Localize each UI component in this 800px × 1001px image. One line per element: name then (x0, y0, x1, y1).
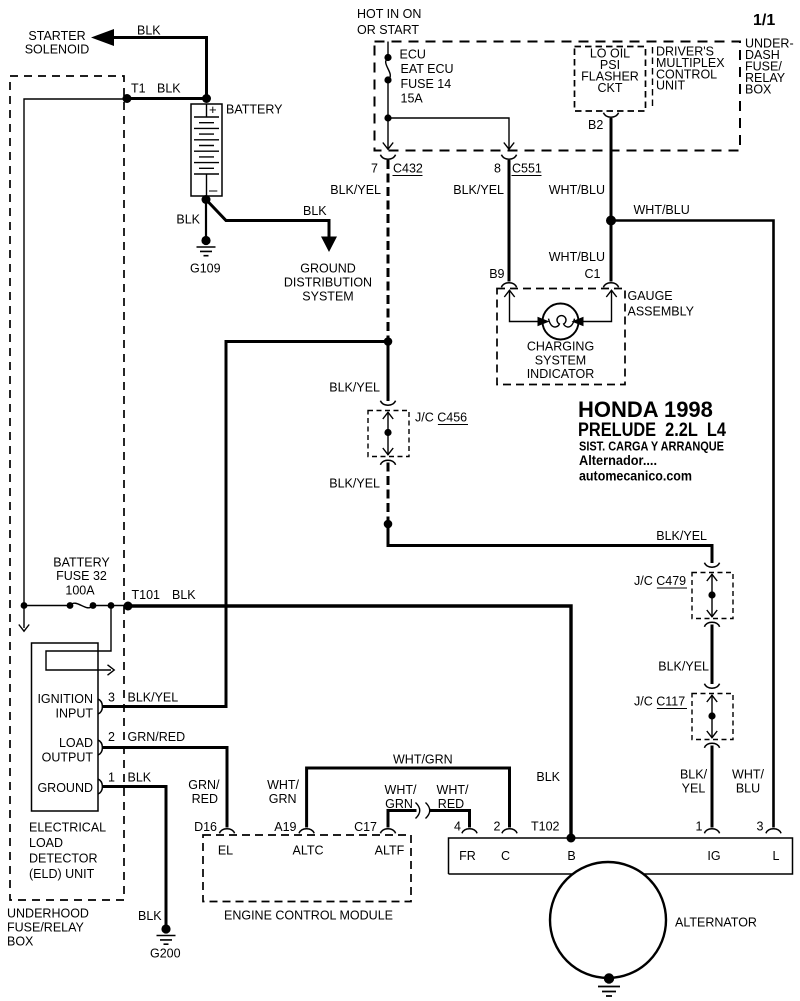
svg-text:BLK: BLK (536, 770, 560, 784)
svg-text:FUSE/RELAY: FUSE/RELAY (7, 921, 85, 935)
wire BLK pin 1 to G200 (103, 787, 166, 927)
wire fuse 32 to T101 (93, 605, 128, 607)
label BLK/ YEL at IG wire (680, 767, 708, 795)
wire hot feed into fuse 14 (387, 42, 389, 58)
dashed separator line right of lo oil box (652, 47, 654, 110)
svg-text:L: L (773, 849, 780, 863)
junction connector J/C C117 (692, 684, 733, 748)
svg-text:GRN/: GRN/ (188, 778, 220, 792)
svg-text:FR: FR (459, 849, 476, 863)
fuse BATTERY FUSE 32 100A (67, 602, 97, 609)
label GROUND DISTRIBUTION SYSTEM (284, 262, 372, 304)
label WHT/ RED right of break (437, 783, 469, 811)
svg-text:WHT/: WHT/ (732, 767, 764, 781)
svg-text:DETECTOR: DETECTOR (29, 852, 98, 866)
svg-text:J/C C117: J/C C117 (634, 695, 685, 709)
label GAUGE ASSEMBLY (628, 289, 695, 319)
wire BLK/YEL junction right and down to J/C C479 (388, 524, 712, 563)
wire BLK/YEL from C551 down to B9 (508, 160, 511, 282)
connector cap C1 at gauge assembly (603, 283, 618, 288)
svg-text:ELECTRICAL: ELECTRICAL (29, 821, 106, 835)
wire WHT/BLU junction right and down to alternator L (611, 221, 774, 828)
svg-text:WHT/: WHT/ (437, 783, 469, 797)
label T101 BLK (132, 588, 197, 602)
svg-text:CHARGING: CHARGING (527, 340, 594, 354)
svg-text:1: 1 (696, 820, 703, 834)
junction connector J/C C456 (368, 401, 409, 465)
svg-text:T102: T102 (531, 820, 560, 834)
wire BLK to starter solenoid with arrowhead (91, 29, 207, 97)
svg-text:(ELD) UNIT: (ELD) UNIT (29, 867, 95, 881)
svg-text:CKT: CKT (598, 81, 623, 95)
svg-text:STARTER: STARTER (28, 29, 85, 43)
svg-text:SYSTEM: SYSTEM (535, 354, 586, 368)
svg-text:8: 8 (494, 162, 501, 176)
wire BLK/YEL dashed from C432 down to junction (387, 160, 390, 342)
alternator terminal box (449, 838, 793, 874)
gauge assembly dashed box (497, 289, 625, 385)
svg-text:EL: EL (218, 844, 233, 858)
wire BLK/YEL between J/C C479 and J/C C117 (711, 625, 714, 685)
label STARTER SOLENOID (25, 29, 90, 57)
svg-text:1: 1 (108, 771, 115, 785)
wire junction down to C432 with arrowhead (383, 118, 393, 149)
svg-text:FUSE 14: FUSE 14 (401, 77, 452, 91)
svg-text:RED: RED (192, 792, 218, 806)
electrical load detector box (32, 643, 99, 811)
svg-text:BLK/YEL: BLK/YEL (128, 691, 179, 705)
svg-text:BLK/YEL: BLK/YEL (658, 660, 709, 674)
wire gauge internal left with up arrow (504, 290, 542, 322)
svg-text:WHT/BLU: WHT/BLU (549, 250, 605, 264)
svg-text:BLK: BLK (138, 909, 162, 923)
svg-text:GRN: GRN (269, 792, 297, 806)
wire gauge internal right with up arrow (579, 290, 617, 322)
label DRIVER'S MULTIPLEX CONTROL UNIT (656, 45, 725, 93)
svg-text:LOAD: LOAD (29, 836, 63, 850)
svg-text:BLK: BLK (157, 82, 181, 96)
svg-text:BLK/: BLK/ (680, 767, 708, 781)
arrow down into C551 (504, 140, 514, 149)
svg-text:BLK/YEL: BLK/YEL (453, 183, 504, 197)
label 7 C432 (371, 162, 423, 176)
under-dash fuse/relay box dashed border (375, 42, 741, 151)
svg-text:UNDERHOOD: UNDERHOOD (7, 907, 89, 921)
svg-text:4: 4 (454, 820, 461, 834)
svg-text:A19: A19 (274, 820, 296, 834)
alternator body circle (550, 862, 666, 978)
ground G200 (157, 924, 176, 944)
label BATTERY FUSE 32 100A (53, 556, 110, 598)
svg-text:C432: C432 (393, 162, 423, 176)
label ECU EAT ECU FUSE 14 15A (400, 47, 454, 105)
underhood fuse/relay box dashed border (10, 76, 124, 900)
svg-text:J/C C479: J/C C479 (634, 574, 686, 588)
svg-text:BLK: BLK (303, 204, 327, 218)
label IGNITION INPUT (37, 692, 93, 720)
label HOT IN ON OR START (357, 7, 421, 37)
svg-text:WHT/GRN: WHT/GRN (393, 753, 453, 767)
svg-text:EAT ECU: EAT ECU (401, 62, 454, 76)
label WHT/ GRN at A19 wire (267, 778, 299, 806)
wire WHT/RED from inline connector to alternator FR (430, 811, 470, 828)
connector cap B9 at gauge assembly (501, 283, 516, 288)
svg-text:BLK: BLK (172, 588, 196, 602)
wire BLK T101 bus to alternator B (128, 606, 571, 838)
label 8 C551 (494, 162, 542, 176)
svg-text:BOX: BOX (745, 83, 772, 97)
wire WHT/BLU from B2 down to C1 (610, 118, 613, 282)
svg-text:C17: C17 (354, 820, 377, 834)
svg-text:BLK: BLK (137, 24, 161, 38)
svg-text:BLK/YEL: BLK/YEL (330, 183, 381, 197)
battery BATTERY (191, 102, 222, 199)
ground G109 (197, 236, 216, 256)
svg-text:ALTC: ALTC (292, 844, 323, 858)
svg-text:–: – (209, 182, 218, 199)
svg-text:G109: G109 (190, 262, 221, 276)
svg-text:100A: 100A (65, 584, 95, 598)
connector cap C terminal (502, 829, 517, 834)
svg-text:DISTRIBUTION: DISTRIBUTION (284, 276, 372, 290)
node T1 junction dot (123, 94, 132, 103)
svg-text:ECU: ECU (400, 47, 426, 61)
svg-text:INDICATOR: INDICATOR (527, 367, 595, 381)
connector C551 cup (501, 155, 516, 160)
svg-text:BLK: BLK (176, 213, 200, 227)
label J/C C456 (415, 411, 468, 425)
node B terminal junction dot (567, 834, 576, 843)
svg-text:WHT/: WHT/ (385, 783, 417, 797)
connector cap L terminal (766, 829, 781, 834)
svg-text:GROUND: GROUND (37, 781, 93, 795)
svg-text:C551: C551 (512, 162, 542, 176)
wire feed below left dot with down arrow (19, 606, 29, 632)
svg-text:3: 3 (757, 820, 764, 834)
svg-text:GROUND: GROUND (300, 262, 356, 276)
svg-text:IGNITION: IGNITION (37, 692, 93, 706)
label LO OIL PSI FLASHER CKT (581, 47, 639, 96)
wire BLK/YEL pin 3 to BLK/YEL junction (103, 342, 388, 707)
wire WHT/GRN from ECM ALTC to alternator C (307, 768, 510, 828)
label LOAD OUTPUT (42, 736, 94, 764)
wire thin from T1 into underhood box down to fuse 32 bus (24, 99, 127, 606)
connector cap FR terminal (462, 829, 477, 834)
svg-text:BLK: BLK (128, 771, 152, 785)
svg-text:J/C C456: J/C C456 (415, 411, 467, 425)
svg-text:WHT/BLU: WHT/BLU (634, 203, 690, 217)
svg-text:3: 3 (108, 691, 115, 705)
label 2 GRN/RED (108, 730, 185, 744)
svg-text:RED: RED (438, 797, 464, 811)
label J/C C117 (634, 695, 687, 709)
charging system indicator bulb (538, 304, 584, 340)
wire fuse 14 output to junction (387, 80, 389, 118)
svg-text:YEL: YEL (682, 781, 706, 795)
svg-text:GRN: GRN (385, 797, 413, 811)
svg-text:ENGINE CONTROL MODULE: ENGINE CONTROL MODULE (224, 909, 393, 923)
label J/C C479 (634, 574, 687, 588)
ground at alternator case (598, 973, 620, 996)
svg-text:ASSEMBLY: ASSEMBLY (628, 305, 695, 319)
wire BLK/YEL dashed from J/C C456 down to junction (387, 463, 390, 525)
junction connector J/C C479 (692, 563, 733, 627)
wire GRN/RED pin 2 to ECM EL (103, 748, 227, 828)
svg-text:BLU: BLU (736, 781, 760, 795)
svg-text:BATTERY: BATTERY (53, 556, 110, 570)
wire WHT/GRN from ECM ALTF to inline connector (388, 811, 417, 828)
label WHT/ BLU at L wire (732, 767, 764, 795)
pin 1 connector at ELD (98, 779, 103, 794)
node fuse output junction dot (384, 114, 391, 121)
svg-text:C: C (501, 849, 510, 863)
wire BLK battery negative to G109 (205, 200, 207, 239)
label WHT/ GRN left of break (385, 783, 417, 811)
svg-text:2: 2 (494, 820, 501, 834)
svg-text:SYSTEM: SYSTEM (302, 290, 353, 304)
svg-text:15A: 15A (401, 92, 424, 106)
node dot at left feed (21, 602, 28, 609)
svg-text:Alternador....: Alternador.... (579, 452, 657, 468)
lo oil psi flasher ckt dashed box (575, 47, 646, 112)
svg-text:INPUT: INPUT (56, 706, 94, 720)
label UNDER-DASH FUSE/RELAY BOX (745, 37, 794, 97)
wire bus to fuse 32 (24, 605, 70, 607)
svg-text:ALTF: ALTF (375, 844, 405, 858)
engine control module dashed box (203, 835, 411, 902)
svg-text:BOX: BOX (7, 935, 34, 949)
node battery negative dot (202, 195, 211, 204)
svg-text:T101: T101 (132, 588, 161, 602)
svg-text:T1: T1 (131, 82, 146, 96)
svg-text:B: B (567, 849, 575, 863)
connector cap A19 at ECM (299, 829, 314, 834)
title HONDA 1998 block (578, 397, 726, 484)
svg-text:automecanico.com: automecanico.com (579, 468, 692, 484)
svg-text:BATTERY: BATTERY (226, 103, 283, 117)
svg-text:BLK/YEL: BLK/YEL (656, 529, 707, 543)
wire BLK/YEL from J/C C117 down to alternator IG (711, 746, 714, 828)
label ELECTRICAL LOAD DETECTOR (ELD) UNIT (29, 821, 106, 882)
wire junction to C551 drop (388, 118, 509, 140)
svg-text:B2: B2 (588, 118, 603, 132)
node T101 junction dot (124, 602, 133, 611)
node BLK/YEL junction dot at ignition input branch (384, 337, 393, 346)
label CHARGING SYSTEM INDICATOR (527, 340, 595, 382)
pin 2 connector at ELD (98, 740, 103, 755)
svg-text:HOT IN ON: HOT IN ON (357, 7, 421, 21)
svg-text:WHT/: WHT/ (267, 778, 299, 792)
svg-text:BLK/YEL: BLK/YEL (329, 477, 380, 491)
svg-text:2: 2 (108, 730, 115, 744)
inline connector break symbol (416, 803, 430, 819)
svg-text:SOLENOID: SOLENOID (25, 43, 90, 57)
node battery positive dot (202, 94, 211, 103)
node dot at ELD feed branch (108, 602, 115, 609)
label 3 BLK/YEL (108, 691, 178, 705)
connector cup at B2 (603, 113, 618, 118)
svg-text:GRN/RED: GRN/RED (128, 730, 186, 744)
label UNDERHOOD FUSE/RELAY BOX (7, 907, 89, 949)
label GRN/ RED at D16 wire (188, 778, 220, 806)
svg-text:G200: G200 (150, 947, 181, 961)
svg-text:WHT/BLU: WHT/BLU (549, 183, 605, 197)
node BLK/YEL junction dot before right run (384, 520, 393, 529)
svg-text:ALTERNATOR: ALTERNATOR (675, 916, 757, 930)
wire T1 to battery positive (127, 97, 207, 100)
connector C432 cup (380, 155, 395, 160)
svg-text:UNIT: UNIT (656, 79, 686, 93)
fuse ECU EAT ECU FUSE 14 15A (384, 54, 391, 84)
wire BLK battery negative to ground distribution system with arrowhead (206, 200, 337, 253)
pin 3 connector at ELD (98, 699, 103, 714)
svg-text:D16: D16 (194, 820, 217, 834)
svg-text:FUSE 32: FUSE 32 (56, 569, 107, 583)
svg-text:GAUGE: GAUGE (628, 289, 673, 303)
svg-text:BLK/YEL: BLK/YEL (329, 381, 380, 395)
svg-text:IG: IG (707, 849, 720, 863)
svg-text:OR START: OR START (357, 23, 419, 37)
svg-text:1/1: 1/1 (753, 12, 775, 29)
svg-text:OUTPUT: OUTPUT (42, 750, 94, 764)
svg-text:B9: B9 (489, 267, 504, 281)
svg-text:LOAD: LOAD (59, 736, 93, 750)
label 1 BLK (108, 771, 152, 785)
connector cap D16 at ECM (219, 829, 234, 834)
wire BLK/YEL junction down to J/C C456 (387, 342, 390, 402)
svg-text:+: + (209, 102, 217, 117)
wire ELD feed zigzag with right arrow (46, 606, 114, 676)
label T1 BLK (131, 82, 181, 96)
node WHT/BLU junction dot (606, 216, 616, 226)
svg-text:C1: C1 (585, 267, 601, 281)
svg-text:7: 7 (371, 162, 378, 176)
connector cap IG terminal (704, 829, 719, 834)
connector cap C17 at ECM (380, 829, 395, 834)
